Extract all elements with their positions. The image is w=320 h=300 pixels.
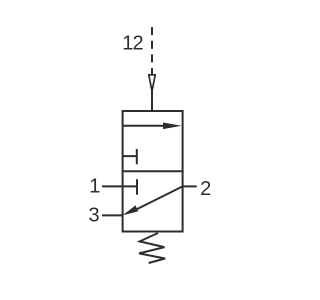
pilot signal line (dashed): [151, 27, 153, 74]
port 3 line: [102, 214, 123, 216]
pilot line stub to valve body: [151, 91, 153, 111]
port 2 line: [183, 185, 197, 187]
return spring: [139, 233, 165, 263]
valve body (two-position envelope): [123, 111, 183, 232]
position divider: [122, 170, 184, 172]
flow path 2 to 3 (diagonal with arrowhead): [132, 186, 183, 211]
port 1 line: [102, 185, 137, 187]
blocked port symbol (top position): [123, 149, 137, 164]
blocked port symbol (bottom position, port 1): [136, 179, 138, 195]
flow path arrow (top position, 1 to 2): [123, 125, 165, 127]
svg-text:3: 3: [89, 205, 100, 227]
svg-text:2: 2: [200, 178, 211, 200]
svg-text:12: 12: [122, 33, 143, 55]
pilot actuation arrowhead (hollow, pointing down): [149, 75, 155, 91]
svg-text:1: 1: [89, 176, 100, 198]
